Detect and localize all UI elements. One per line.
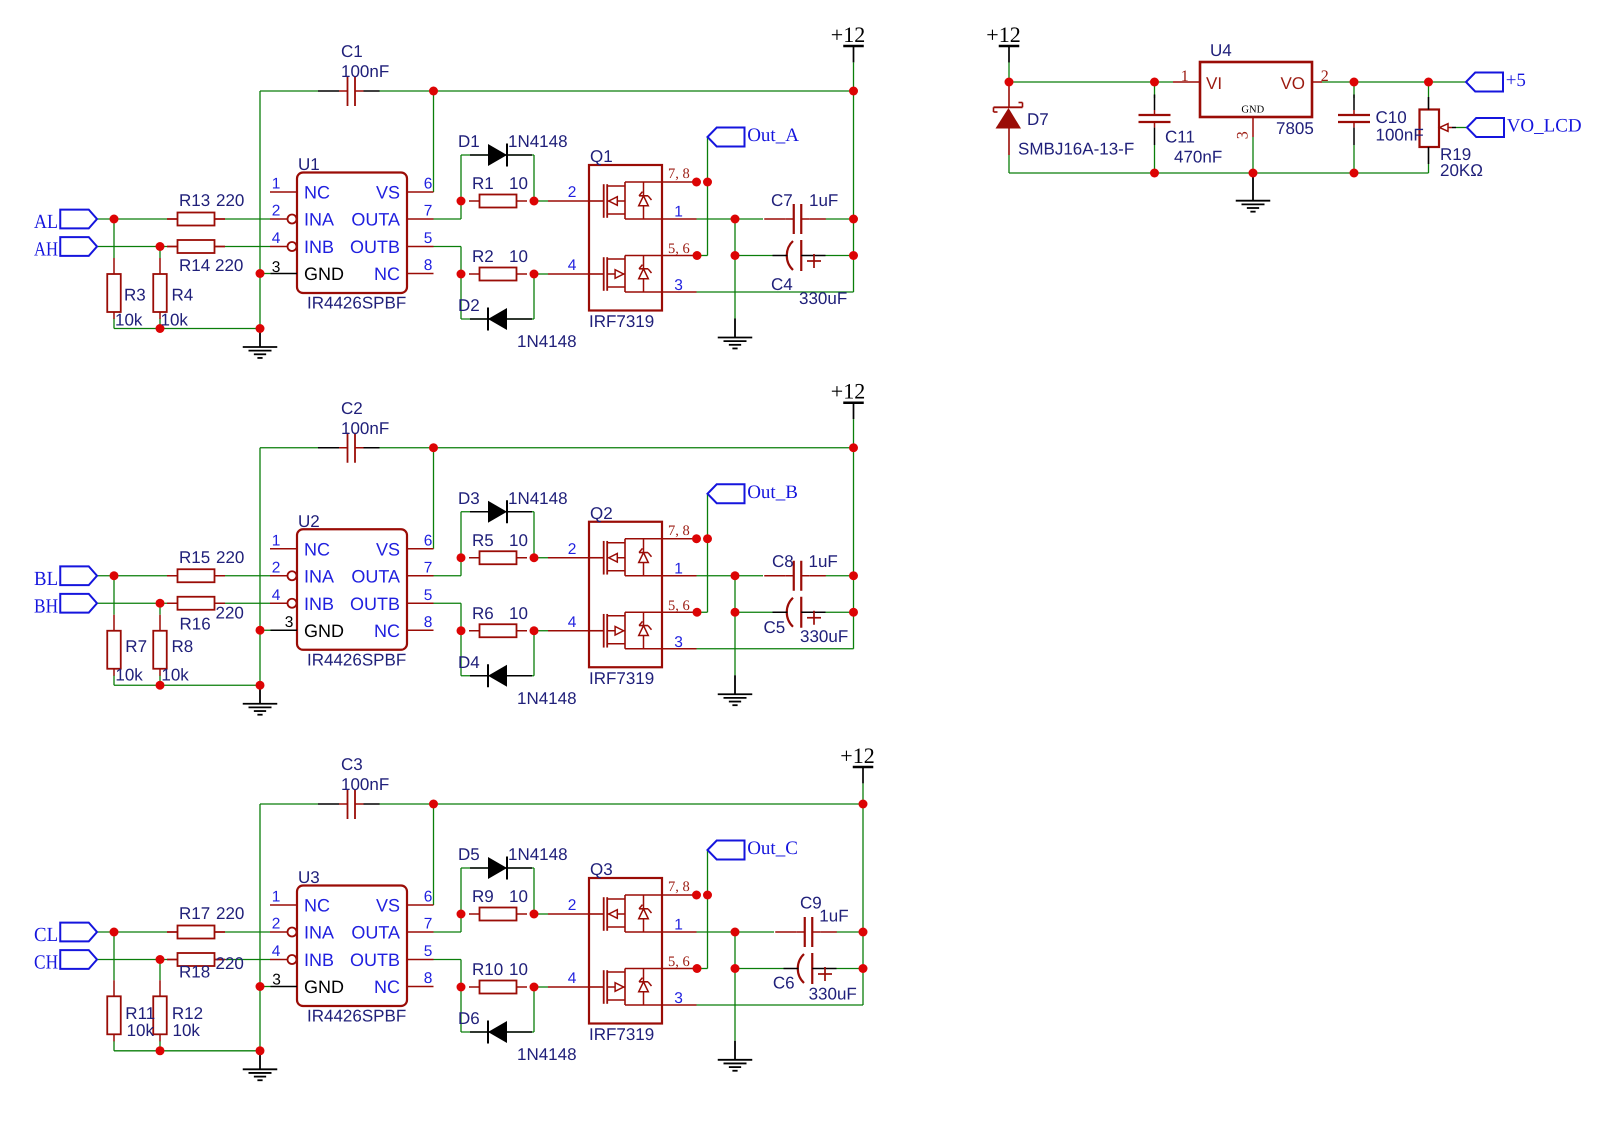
svg-text:INA: INA [304, 923, 334, 943]
svg-text:2: 2 [568, 897, 577, 914]
svg-text:U3: U3 [298, 868, 320, 887]
svg-text:3: 3 [674, 634, 683, 651]
svg-text:100nF: 100nF [341, 775, 389, 794]
svg-text:NC: NC [374, 621, 400, 641]
svg-text:NC: NC [304, 183, 330, 203]
svg-text:1uF: 1uF [819, 907, 848, 926]
svg-text:10: 10 [509, 531, 528, 550]
svg-text:3: 3 [272, 972, 281, 989]
svg-text:R14: R14 [179, 256, 210, 275]
svg-text:5, 6: 5, 6 [668, 598, 690, 614]
svg-text:10: 10 [509, 960, 528, 979]
svg-text:U4: U4 [1210, 41, 1232, 60]
svg-text:1uF: 1uF [809, 552, 838, 571]
svg-text:2: 2 [272, 203, 281, 220]
svg-text:330uF: 330uF [809, 984, 857, 1003]
svg-text:7, 8: 7, 8 [668, 166, 690, 182]
svg-text:NC: NC [304, 539, 330, 559]
svg-text:OUTA: OUTA [351, 210, 400, 230]
svg-text:3: 3 [272, 259, 281, 276]
svg-text:7805: 7805 [1276, 119, 1314, 138]
svg-text:1N4148: 1N4148 [508, 132, 568, 151]
svg-text:4: 4 [568, 970, 577, 987]
svg-text:D4: D4 [458, 653, 480, 672]
svg-text:7, 8: 7, 8 [668, 879, 690, 895]
svg-text:U1: U1 [298, 155, 320, 174]
svg-text:3: 3 [674, 277, 683, 294]
svg-text:VS: VS [376, 183, 400, 203]
svg-text:C6: C6 [773, 974, 795, 993]
svg-text:AH: AH [34, 239, 58, 261]
svg-text:IRF7319: IRF7319 [589, 1025, 654, 1044]
svg-text:OUTB: OUTB [350, 950, 400, 970]
svg-text:D2: D2 [458, 296, 480, 315]
svg-text:R2: R2 [472, 247, 494, 266]
svg-text:Out_B: Out_B [747, 482, 798, 503]
svg-text:8: 8 [424, 970, 433, 987]
svg-text:3: 3 [285, 614, 294, 631]
svg-text:10k: 10k [161, 311, 189, 330]
svg-text:NC: NC [374, 977, 400, 997]
svg-text:5, 6: 5, 6 [668, 954, 690, 970]
svg-text:R18: R18 [179, 963, 210, 982]
svg-text:D5: D5 [458, 845, 480, 864]
svg-text:R5: R5 [472, 531, 494, 550]
svg-text:220: 220 [216, 191, 244, 210]
svg-text:+12: +12 [840, 743, 874, 768]
svg-text:R6: R6 [472, 604, 494, 623]
svg-text:AL: AL [34, 211, 58, 233]
svg-text:CH: CH [34, 952, 58, 974]
svg-text:VI: VI [1206, 74, 1222, 93]
svg-text:IRF7319: IRF7319 [589, 669, 654, 688]
svg-text:+12: +12 [831, 22, 865, 47]
svg-text:6: 6 [424, 889, 433, 906]
svg-text:8: 8 [424, 614, 433, 631]
svg-text:Q3: Q3 [590, 860, 613, 879]
svg-text:C11: C11 [1165, 128, 1195, 147]
svg-text:OUTA: OUTA [351, 566, 400, 586]
svg-text:10: 10 [509, 604, 528, 623]
svg-text:GND: GND [304, 977, 344, 997]
svg-text:4: 4 [272, 943, 281, 960]
svg-text:10k: 10k [115, 311, 143, 330]
svg-text:VO: VO [1280, 74, 1305, 93]
svg-text:10: 10 [509, 247, 528, 266]
svg-text:1: 1 [272, 532, 281, 549]
svg-text:VS: VS [376, 896, 400, 916]
svg-text:4: 4 [568, 257, 577, 274]
svg-text:IR4426SPBF: IR4426SPBF [307, 294, 406, 313]
svg-text:C7: C7 [771, 191, 793, 210]
svg-text:R4: R4 [172, 286, 194, 305]
svg-text:10: 10 [509, 174, 528, 193]
svg-text:C1: C1 [341, 42, 363, 61]
svg-text:R8: R8 [172, 637, 194, 656]
svg-text:INA: INA [304, 566, 334, 586]
svg-text:C10: C10 [1376, 108, 1407, 127]
svg-text:BL: BL [34, 568, 58, 590]
svg-text:OUTB: OUTB [350, 237, 400, 257]
svg-text:R15: R15 [179, 548, 210, 567]
svg-text:VO_LCD: VO_LCD [1507, 116, 1582, 137]
svg-text:1: 1 [1181, 68, 1189, 85]
svg-text:1: 1 [674, 560, 683, 577]
svg-text:6: 6 [424, 532, 433, 549]
svg-text:R9: R9 [472, 887, 494, 906]
svg-text:INB: INB [304, 594, 334, 614]
svg-text:7: 7 [424, 916, 433, 933]
svg-text:IR4426SPBF: IR4426SPBF [307, 650, 406, 669]
svg-text:4: 4 [568, 614, 577, 631]
svg-text:4: 4 [272, 230, 281, 247]
svg-text:5, 6: 5, 6 [668, 241, 690, 257]
svg-text:2: 2 [272, 559, 281, 576]
svg-text:R17: R17 [179, 904, 210, 923]
svg-text:100nF: 100nF [1376, 126, 1424, 145]
svg-text:5: 5 [424, 943, 433, 960]
svg-text:OUTB: OUTB [350, 594, 400, 614]
svg-text:+5: +5 [1506, 70, 1526, 91]
svg-text:1: 1 [272, 889, 281, 906]
svg-text:220: 220 [215, 256, 243, 275]
svg-text:CL: CL [34, 924, 58, 946]
svg-text:R10: R10 [472, 960, 503, 979]
svg-text:GND: GND [1241, 104, 1264, 115]
svg-text:7: 7 [424, 559, 433, 576]
svg-text:GND: GND [304, 264, 344, 284]
svg-text:20KΩ: 20KΩ [1440, 161, 1483, 180]
svg-text:8: 8 [424, 257, 433, 274]
svg-text:220: 220 [216, 954, 244, 973]
svg-text:INB: INB [304, 237, 334, 257]
svg-text:100nF: 100nF [341, 419, 389, 438]
svg-text:D1: D1 [458, 132, 480, 151]
svg-text:220: 220 [216, 604, 244, 623]
svg-text:330uF: 330uF [800, 627, 848, 646]
svg-text:2: 2 [568, 541, 577, 558]
svg-text:Q1: Q1 [590, 147, 613, 166]
svg-text:2: 2 [1321, 68, 1329, 85]
svg-text:3: 3 [1235, 131, 1252, 139]
svg-text:Out_A: Out_A [747, 125, 799, 146]
svg-text:IRF7319: IRF7319 [589, 312, 654, 331]
svg-text:7, 8: 7, 8 [668, 523, 690, 539]
svg-text:C8: C8 [772, 552, 794, 571]
svg-text:3: 3 [674, 990, 683, 1007]
svg-text:OUTA: OUTA [351, 923, 400, 943]
svg-text:1uF: 1uF [809, 191, 838, 210]
svg-text:2: 2 [272, 916, 281, 933]
svg-text:C2: C2 [341, 399, 363, 418]
svg-text:470nF: 470nF [1174, 148, 1222, 167]
svg-text:U2: U2 [298, 512, 320, 531]
svg-text:R7: R7 [125, 637, 147, 656]
svg-text:6: 6 [424, 176, 433, 193]
svg-text:220: 220 [216, 904, 244, 923]
svg-text:BH: BH [34, 595, 58, 617]
svg-text:5: 5 [424, 587, 433, 604]
svg-text:100nF: 100nF [341, 62, 389, 81]
svg-text:7: 7 [424, 203, 433, 220]
svg-text:4: 4 [272, 587, 281, 604]
svg-text:1N4148: 1N4148 [517, 1045, 577, 1064]
svg-text:330uF: 330uF [799, 289, 847, 308]
svg-text:D3: D3 [458, 489, 480, 508]
svg-text:NC: NC [374, 264, 400, 284]
svg-text:+12: +12 [986, 22, 1020, 47]
svg-text:C5: C5 [764, 618, 786, 637]
svg-text:10k: 10k [161, 665, 189, 684]
svg-text:1N4148: 1N4148 [517, 332, 577, 351]
svg-text:10k: 10k [127, 1021, 155, 1040]
svg-text:1N4148: 1N4148 [517, 689, 577, 708]
svg-text:R3: R3 [124, 286, 146, 305]
svg-text:Q2: Q2 [590, 504, 613, 523]
svg-text:10k: 10k [173, 1021, 201, 1040]
svg-text:INA: INA [304, 210, 334, 230]
svg-text:R1: R1 [472, 174, 494, 193]
svg-text:220: 220 [216, 548, 244, 567]
svg-text:1: 1 [674, 204, 683, 221]
svg-text:1N4148: 1N4148 [508, 489, 568, 508]
svg-text:Out_C: Out_C [747, 838, 798, 859]
svg-text:INB: INB [304, 950, 334, 970]
svg-text:SMBJ16A-13-F: SMBJ16A-13-F [1018, 140, 1134, 159]
svg-text:D7: D7 [1027, 110, 1049, 129]
svg-text:2: 2 [568, 184, 577, 201]
svg-text:10k: 10k [115, 665, 143, 684]
svg-text:C3: C3 [341, 755, 363, 774]
svg-text:D6: D6 [458, 1009, 480, 1028]
svg-text:GND: GND [304, 621, 344, 641]
svg-text:+12: +12 [831, 379, 865, 404]
svg-text:5: 5 [424, 230, 433, 247]
svg-text:1: 1 [674, 917, 683, 934]
svg-text:10: 10 [509, 887, 528, 906]
svg-text:NC: NC [304, 896, 330, 916]
svg-text:R16: R16 [180, 615, 211, 634]
svg-text:1: 1 [272, 176, 281, 193]
svg-text:IR4426SPBF: IR4426SPBF [307, 1007, 406, 1026]
svg-text:R13: R13 [179, 191, 210, 210]
svg-text:1N4148: 1N4148 [508, 845, 568, 864]
svg-text:C4: C4 [771, 275, 793, 294]
svg-text:VS: VS [376, 539, 400, 559]
